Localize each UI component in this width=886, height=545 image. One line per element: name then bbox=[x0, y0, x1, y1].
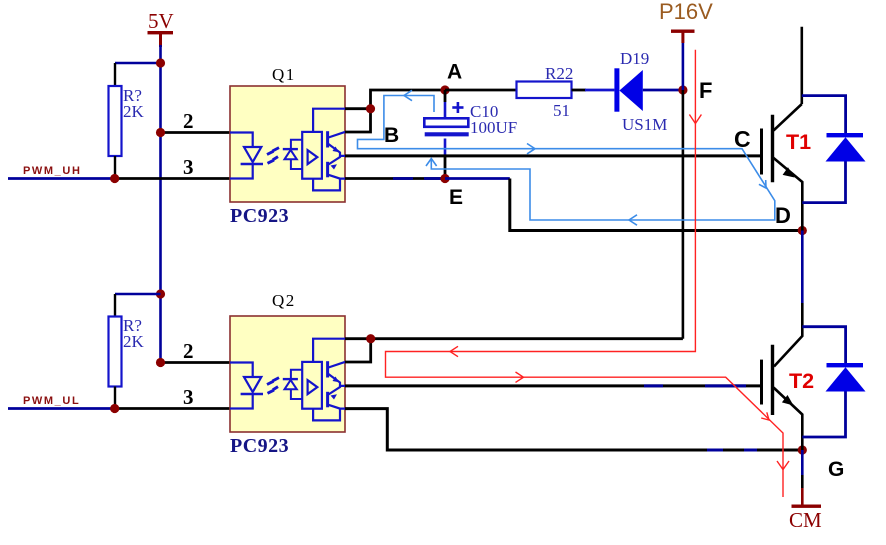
svg-text:D19: D19 bbox=[620, 49, 649, 68]
wire Q2 Vcc pin bbox=[345, 337, 371, 340]
resistor R1 bbox=[109, 86, 145, 156]
wire R22 to D19 bbox=[572, 89, 587, 92]
wire 5V rail lower bbox=[159, 133, 162, 363]
junction 5V/R2 bbox=[156, 289, 165, 298]
wire P16V rail down bbox=[682, 90, 685, 339]
amplifier Q2 bbox=[302, 362, 322, 409]
node F bbox=[678, 85, 687, 94]
capacitor C10 bbox=[424, 102, 517, 137]
node G bbox=[798, 445, 807, 454]
svg-text:100UF: 100UF bbox=[470, 118, 517, 137]
svg-text:2: 2 bbox=[183, 109, 194, 133]
wire Vcc stub bbox=[345, 109, 371, 132]
wire pin3 Q2 bbox=[115, 407, 230, 410]
node A bbox=[440, 85, 449, 94]
svg-text:PC923: PC923 bbox=[230, 435, 289, 457]
svg-text:F: F bbox=[699, 78, 712, 103]
photodiode Q2 bbox=[283, 370, 302, 399]
LED D-Q2 bbox=[230, 363, 263, 409]
resistor R22 bbox=[517, 64, 574, 120]
svg-text:B: B bbox=[384, 124, 399, 147]
power 5V bbox=[148, 9, 174, 47]
wire Q1 VEE to E bbox=[345, 177, 445, 180]
junction PWM_UL/R2 bbox=[110, 404, 119, 413]
transistor QO1 upper bbox=[328, 131, 345, 156]
light arrows Q1 bbox=[267, 148, 279, 164]
wire Vcc to node A bbox=[371, 90, 446, 109]
svg-text:A: A bbox=[447, 61, 462, 84]
wire to R1 top bbox=[115, 62, 161, 65]
amplifier Q1 bbox=[302, 132, 322, 179]
svg-text:R22: R22 bbox=[545, 64, 573, 83]
svg-text:T2: T2 bbox=[789, 369, 814, 393]
wire Vcc stub Q2 bbox=[345, 339, 371, 362]
wire PWM_UH bbox=[8, 177, 115, 180]
wire pin3 Q1 bbox=[115, 177, 230, 180]
diode D19 bbox=[614, 49, 667, 134]
junction 5V/R1 bbox=[156, 58, 165, 67]
svg-text:PC923: PC923 bbox=[230, 205, 289, 227]
transistor QO4 lower bbox=[328, 386, 345, 409]
photodiode Q1 bbox=[283, 140, 302, 169]
wire A to C10 bbox=[444, 90, 447, 102]
wire D19 to F bbox=[643, 89, 683, 92]
wire Q1 Vcc pin bbox=[345, 107, 371, 110]
junction Vcc Q1 bbox=[366, 104, 375, 113]
svg-text:CM: CM bbox=[789, 508, 822, 532]
LED D-Q1 bbox=[230, 133, 263, 179]
wire Q2 Vcc to P16V rail bbox=[371, 337, 683, 340]
svg-text:E: E bbox=[449, 186, 463, 209]
diode DT1 flyback bbox=[802, 96, 866, 203]
junction PWM_UH/R1 bbox=[110, 174, 119, 183]
light arrows Q2 bbox=[267, 378, 279, 394]
transistor QO2 lower bbox=[328, 156, 345, 179]
svg-text:2K: 2K bbox=[123, 332, 145, 351]
svg-text:51: 51 bbox=[553, 101, 570, 120]
rails Q2 bbox=[313, 339, 345, 421]
svg-text:3: 3 bbox=[183, 155, 194, 179]
svg-text:2K: 2K bbox=[123, 102, 145, 121]
annotation turn-on loop (light blue) bbox=[358, 90, 775, 225]
wire Q2 VEE to G bbox=[345, 409, 802, 450]
svg-text:5V: 5V bbox=[148, 9, 174, 33]
wire to R2 top bbox=[115, 293, 161, 296]
wire PWM_UL bbox=[8, 407, 115, 410]
ground CM bbox=[789, 450, 822, 532]
resistor R2 bbox=[109, 316, 145, 387]
op-amp U2 optocoupler Q2 bbox=[230, 291, 345, 457]
rails Q1 bbox=[313, 109, 345, 191]
wire pin2 Q2 bbox=[161, 361, 231, 364]
svg-text:Q2: Q2 bbox=[272, 291, 296, 310]
annotation turn-on loop T2 (red) bbox=[386, 50, 790, 497]
transistor T2 IGBT bbox=[762, 345, 815, 450]
wire A to R22 bbox=[445, 89, 517, 92]
wire D to T2 collector bbox=[801, 231, 804, 304]
svg-text:PWM_UL: PWM_UL bbox=[23, 395, 80, 407]
wire Q2 VO to T2 gate bbox=[345, 384, 760, 387]
wire 5V rail upper bbox=[159, 45, 162, 133]
transistor T1 IGBT bbox=[734, 27, 811, 231]
svg-text:Q1: Q1 bbox=[272, 65, 296, 84]
node E bbox=[440, 174, 449, 183]
svg-text:G: G bbox=[828, 458, 844, 481]
node D bbox=[798, 226, 807, 235]
svg-text:D: D bbox=[775, 203, 791, 228]
transistor QO3 upper bbox=[328, 361, 345, 386]
svg-text:US1M: US1M bbox=[622, 115, 667, 134]
svg-text:T1: T1 bbox=[786, 130, 811, 154]
wire C10 to E bbox=[444, 139, 447, 156]
svg-text:PWM_UH: PWM_UH bbox=[23, 165, 82, 177]
junction pin2 bbox=[156, 128, 165, 137]
svg-text:P16V: P16V bbox=[659, 0, 713, 24]
junction pin2 Q2 bbox=[156, 358, 165, 367]
junction Vcc Q2 bbox=[366, 334, 375, 343]
op-amp U1 optocoupler Q1 bbox=[230, 65, 345, 227]
svg-text:3: 3 bbox=[183, 385, 194, 409]
svg-text:2: 2 bbox=[183, 339, 194, 363]
wire pin2 Q1 bbox=[161, 131, 231, 134]
wire R1 bottom bbox=[114, 156, 116, 179]
wire P16V to F bbox=[682, 43, 685, 90]
wire Q1 VO to T1 gate bbox=[345, 154, 760, 157]
wire R2 bottom bbox=[114, 387, 116, 409]
power P16V bbox=[659, 0, 713, 43]
wire E to D bbox=[445, 177, 510, 180]
diode DT2 flyback bbox=[802, 327, 865, 437]
